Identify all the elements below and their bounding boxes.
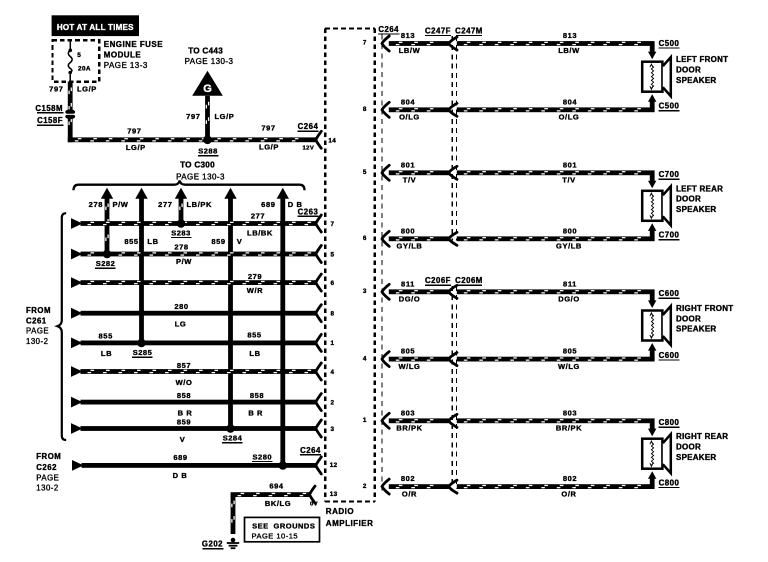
pin number 3 (right): [363, 288, 367, 295]
svg-text:LG/P: LG/P: [77, 84, 97, 93]
label TO C443: [188, 46, 223, 55]
svg-text:858: 858: [250, 391, 264, 400]
svg-text:TO C443: TO C443: [188, 46, 223, 55]
wire 801 T/V to speaker: [457, 170, 655, 175]
label 797 left of fuse wire: [49, 84, 63, 93]
connector C700 label top: [658, 170, 679, 180]
label W/LG (right seg): [558, 362, 580, 371]
terminal fishtail pin 4 (C264 right): [382, 352, 389, 367]
inline connector fishtail wire 803: [449, 414, 457, 427]
speaker name LEFT FRONT: [676, 55, 728, 85]
svg-text:P/W: P/W: [176, 257, 192, 266]
wire row 4 horizontal: [81, 311, 316, 316]
terminal fishtail pin 1 (C263): [316, 334, 322, 351]
label RADIO AMPLIFIER: [326, 507, 374, 528]
arrow from C261 row 5: [71, 338, 83, 349]
label 689 row: [173, 453, 187, 462]
wire 278 P/W vertical: [105, 198, 110, 255]
label LB row5 left: [101, 349, 112, 358]
arrow into speaker top C700: [648, 181, 656, 189]
arrow into speaker top C800: [648, 429, 656, 437]
wire 803 BR/PK left of connector: [389, 418, 449, 423]
svg-text:277: 277: [158, 200, 172, 209]
radio amplifier dashed box: [325, 29, 375, 502]
svg-text:C600: C600: [659, 351, 680, 360]
svg-text:PAGE 10-15: PAGE 10-15: [252, 531, 299, 540]
pin number 5 (right): [363, 169, 367, 176]
label 805 (left seg): [401, 347, 415, 356]
svg-text:AMPLIFIER: AMPLIFIER: [326, 519, 374, 528]
inline connector fishtail wire 813: [449, 37, 457, 50]
label BR/PK (right seg): [556, 424, 582, 433]
svg-text:803: 803: [563, 408, 577, 417]
svg-text:20A: 20A: [78, 65, 91, 72]
arrow into speaker bottom C500: [648, 94, 656, 102]
label 813 (left seg): [401, 31, 415, 40]
wire 802 O/R left of connector: [389, 484, 449, 489]
splice S285: [137, 339, 146, 348]
inline connector fishtail wire 800: [449, 232, 457, 245]
connector C247 dashed lines: [452, 36, 456, 241]
svg-text:802: 802: [563, 474, 577, 483]
svg-text:800: 800: [401, 226, 415, 235]
wire stub up from speaker C600: [650, 350, 655, 357]
splice S283: [177, 219, 186, 228]
svg-text:W/LG: W/LG: [558, 362, 580, 371]
svg-text:803: 803: [401, 408, 415, 417]
svg-text:S285: S285: [133, 348, 153, 357]
svg-text:PAGE 130-3: PAGE 130-3: [176, 172, 225, 181]
label 800 (right seg): [563, 226, 577, 235]
inline connector fishtail wire 811: [449, 285, 457, 298]
pin number 6 (C263): [331, 280, 335, 287]
label 277 row1: [251, 212, 265, 221]
svg-text:S283: S283: [171, 228, 191, 237]
label LB (A2 right): [147, 237, 158, 246]
arrow up wire 859 V (A4): [224, 188, 236, 199]
svg-text:C158F: C158F: [37, 116, 63, 125]
label 278 row2: [174, 243, 188, 252]
connector C247M label: [455, 26, 483, 36]
label 797 (G stub): [186, 112, 200, 121]
wire stub down to speaker C600: [650, 294, 655, 301]
label 797 left segment: [127, 126, 141, 135]
svg-text:S282: S282: [96, 259, 116, 268]
svg-text:RADIO: RADIO: [326, 507, 354, 516]
connector C158F label: [37, 116, 63, 126]
arrow into speaker bottom C600: [648, 343, 656, 351]
label 855 row5 right: [247, 331, 261, 340]
label D B (A5): [288, 200, 303, 209]
terminal fishtail pin 13: [310, 486, 316, 503]
svg-text:P/W: P/W: [113, 200, 129, 209]
label B R row7 right: [248, 408, 263, 417]
pin number 1 (right): [363, 417, 367, 424]
wire 801 T/V left of connector: [389, 170, 449, 175]
arrow into speaker bottom C800: [648, 471, 656, 479]
speaker C700 voice coil: [650, 193, 654, 218]
svg-text:G: G: [203, 83, 212, 95]
svg-text:7: 7: [363, 40, 367, 47]
pin number 8 (C263): [331, 311, 335, 318]
svg-text:LB/BK: LB/BK: [247, 229, 273, 238]
wire 811 DG/O left of connector: [389, 289, 449, 294]
label O/LG (left seg): [399, 113, 420, 122]
wire 805 W/LG left of connector: [389, 357, 449, 362]
terminal fishtail pin 8 (C264 right): [382, 102, 389, 117]
arrow from C261 row 7: [71, 397, 83, 408]
triangle G to C443: [192, 71, 223, 96]
connector C206M label: [455, 276, 483, 286]
svg-text:7: 7: [331, 221, 335, 228]
label LG/P left segment: [126, 143, 146, 152]
svg-text:O/LG: O/LG: [559, 113, 580, 122]
connector C264 label (pin 12): [300, 446, 321, 456]
svg-text:813: 813: [563, 31, 577, 40]
label GY/LB (left seg): [397, 242, 423, 251]
svg-text:C247F: C247F: [425, 26, 451, 35]
splice S282: [103, 250, 112, 259]
svg-text:C264: C264: [300, 446, 321, 455]
svg-text:14: 14: [328, 137, 336, 144]
pin number 2 (right): [363, 483, 367, 490]
svg-text:PAGE 13-3: PAGE 13-3: [104, 61, 148, 70]
svg-text:C800: C800: [659, 478, 680, 487]
label 0V: [310, 501, 318, 507]
label FROM C262 PAGE 130-2: [36, 452, 61, 492]
svg-text:6: 6: [363, 235, 367, 242]
svg-text:3: 3: [363, 288, 367, 295]
svg-text:BK/LG: BK/LG: [265, 499, 291, 508]
svg-text:797: 797: [261, 124, 275, 133]
speaker C800 horn: [663, 434, 671, 473]
connector C247F label: [425, 26, 451, 36]
svg-text:C600: C600: [659, 289, 680, 298]
label T/V (right seg): [562, 176, 575, 185]
label 813 (right seg): [563, 31, 577, 40]
svg-text:W/LG: W/LG: [399, 362, 421, 371]
svg-text:C158M: C158M: [35, 104, 63, 113]
svg-text:130-2: 130-2: [26, 337, 48, 346]
label W/O row6: [176, 378, 193, 387]
svg-text:797: 797: [49, 84, 63, 93]
label S282: [95, 259, 116, 269]
svg-text:280: 280: [174, 302, 188, 311]
svg-text:SPEAKER: SPEAKER: [676, 205, 716, 214]
terminal fishtail pin 8 (C263): [316, 305, 322, 322]
label V row8: [180, 435, 186, 444]
svg-text:ENGINE FUSE: ENGINE FUSE: [104, 40, 163, 49]
wire stub down to speaker C800: [650, 423, 655, 429]
svg-text:BR/PK: BR/PK: [556, 424, 582, 433]
svg-text:5: 5: [331, 251, 335, 258]
label 800 (left seg): [401, 226, 415, 235]
wire 805 W/LG to speaker: [457, 357, 655, 362]
label PAGE 130-3 (C443): [185, 57, 234, 66]
svg-text:6: 6: [331, 280, 335, 287]
terminal fishtail pin 5 (C264 right): [382, 165, 389, 180]
label O/R (right seg): [561, 489, 576, 498]
see grounds note box: [245, 517, 320, 541]
terminal fishtail pin 6 (C264 right): [382, 231, 389, 246]
arrow up wire 277 LB/PK (A3): [175, 188, 187, 199]
svg-text:DOOR: DOOR: [676, 195, 701, 204]
label FROM C261 PAGE 130-2: [26, 306, 51, 346]
speaker C700 horn: [663, 186, 671, 225]
speaker C500 horn: [663, 57, 671, 96]
svg-text:130-2: 130-2: [36, 484, 58, 493]
terminal fishtail pin 3 (C263): [316, 420, 322, 437]
fuse value label 20A: [78, 65, 91, 72]
label LG row4: [175, 320, 187, 329]
arrow from C261 row 8: [71, 423, 83, 434]
pin number 14: [328, 137, 336, 144]
svg-text:4: 4: [363, 355, 367, 362]
speaker name RIGHT FRONT: [676, 304, 733, 334]
svg-text:LG/P: LG/P: [126, 143, 146, 152]
svg-text:T/V: T/V: [403, 176, 416, 185]
label 811 (left seg): [401, 279, 415, 288]
pin number 13: [330, 491, 338, 498]
svg-text:LB: LB: [101, 349, 112, 358]
svg-text:797: 797: [127, 126, 141, 135]
wire 797 LG/P vertical to G triangle: [205, 96, 210, 140]
label 859 row8: [177, 417, 191, 426]
pin number 6 (right): [363, 235, 367, 242]
svg-text:TO C300: TO C300: [180, 160, 215, 169]
pin number 4 (right): [363, 355, 367, 362]
wire row 8 horizontal: [81, 426, 316, 431]
svg-text:LEFT FRONT: LEFT FRONT: [676, 55, 728, 64]
svg-text:LG/P: LG/P: [259, 143, 279, 152]
label P/W (A1): [113, 200, 129, 209]
svg-text:1: 1: [363, 417, 367, 424]
terminal fishtail pin 5 (C263): [316, 246, 322, 263]
label O/LG (right seg): [559, 113, 580, 122]
svg-text:W/O: W/O: [176, 378, 193, 387]
brace FROM C261: [57, 213, 66, 440]
arrow up wire 278 P/W (A1): [101, 188, 113, 199]
terminal fishtail pin 4 (C263): [316, 363, 322, 380]
wire row 2 horizontal: [81, 252, 316, 257]
svg-text:C206M: C206M: [455, 276, 483, 285]
label LB/PK (A3): [187, 200, 213, 209]
pin number 2 (C263): [331, 399, 335, 406]
wire 694 BK/LG vertical: [231, 495, 236, 534]
connector C264 label (top right): [378, 25, 399, 35]
svg-text:811: 811: [563, 279, 577, 288]
label 802 (left seg): [401, 474, 415, 483]
svg-text:2: 2: [331, 399, 335, 406]
svg-text:858: 858: [177, 391, 191, 400]
wire 277 LB/PK vertical: [179, 198, 184, 224]
arrow from C261 row 2: [71, 249, 83, 260]
svg-text:278: 278: [89, 200, 103, 209]
connector C264 dashed line (right): [381, 35, 383, 495]
wire 802 O/R to speaker: [457, 484, 655, 489]
connector C264 label (pin 14): [297, 122, 318, 132]
svg-text:2: 2: [363, 483, 367, 490]
label 804 (right seg): [563, 97, 578, 106]
inline connector fishtail wire 801: [449, 166, 457, 179]
label 801 (right seg): [563, 160, 577, 169]
svg-text:278: 278: [174, 243, 188, 252]
svg-text:804: 804: [401, 97, 416, 106]
svg-text:PAGE: PAGE: [26, 327, 49, 336]
svg-text:5: 5: [363, 169, 367, 176]
svg-text:0V: 0V: [310, 501, 318, 507]
label W/LG (left seg): [399, 362, 421, 371]
splice S284: [226, 424, 235, 433]
svg-text:DOOR: DOOR: [676, 314, 701, 323]
svg-text:1: 1: [331, 340, 335, 347]
svg-text:797: 797: [186, 112, 200, 121]
wire 689 DB horizontal: [82, 463, 316, 468]
arrow from C261 row 4: [71, 308, 83, 319]
power feed label box HOT AT ALL TIMES: [52, 15, 139, 36]
svg-text:4: 4: [331, 369, 335, 376]
wire 797 LG/P vertical from fuse: [68, 82, 73, 143]
svg-text:857: 857: [177, 361, 191, 370]
label LB/BK row1: [247, 229, 273, 238]
label 811 (right seg): [563, 279, 577, 288]
svg-text:HOT AT ALL TIMES: HOT AT ALL TIMES: [57, 23, 134, 32]
arrow up wire 855 LB (A2): [135, 188, 147, 199]
pin number 12: [330, 462, 338, 469]
svg-text:LB: LB: [147, 237, 158, 246]
connector C263 label: [297, 207, 318, 217]
label S280: [252, 452, 273, 462]
label 280 row4: [174, 302, 188, 311]
connector C600 label bottom: [658, 351, 679, 361]
label 804 (left seg): [401, 97, 416, 106]
svg-text:V: V: [237, 237, 243, 246]
label G202: [202, 540, 224, 550]
svg-text:C247M: C247M: [455, 26, 483, 35]
label PAGE 130-3 (C300): [176, 172, 225, 181]
svg-text:805: 805: [401, 347, 415, 356]
connector C206F label: [425, 276, 451, 286]
speaker C700 box: [642, 191, 662, 221]
pin number 1 (C263): [331, 340, 335, 347]
svg-text:C263: C263: [298, 207, 319, 216]
svg-text:C261: C261: [26, 316, 47, 325]
svg-text:5: 5: [77, 52, 81, 59]
svg-text:C700: C700: [659, 170, 680, 179]
label 277 (A3): [158, 200, 172, 209]
svg-text:S288: S288: [198, 147, 218, 156]
label 805 (right seg): [563, 347, 577, 356]
svg-text:689: 689: [173, 453, 187, 462]
wire 804 O/LG left of connector: [389, 107, 449, 112]
terminal fishtail pin 7 (C264 right): [382, 36, 389, 51]
inline connector C158 barrel symbol: [65, 109, 76, 119]
fuse F5 20A symbol: [68, 42, 72, 82]
label 803 (left seg): [401, 408, 415, 417]
wire 800 GY/LB to speaker: [457, 236, 655, 241]
svg-text:GROUNDS: GROUNDS: [274, 522, 316, 531]
svg-text:C206F: C206F: [425, 276, 451, 285]
svg-text:DOOR: DOOR: [676, 66, 701, 75]
svg-text:279: 279: [248, 272, 262, 281]
terminal fishtail pin 3 (C264 right): [382, 284, 389, 299]
wire stub down to speaker C500: [650, 46, 655, 53]
label T/V (left seg): [403, 176, 416, 185]
label 278 (A1): [89, 200, 103, 209]
svg-text:C264: C264: [298, 122, 319, 131]
connector C600 label top: [658, 289, 679, 299]
wire 689 DB vertical: [280, 198, 285, 466]
svg-text:LB/W: LB/W: [399, 46, 421, 55]
connector C206 dashed lines: [452, 286, 456, 489]
svg-text:12V: 12V: [303, 145, 315, 151]
svg-text:BR/PK: BR/PK: [396, 424, 422, 433]
wire 804 O/LG to speaker: [457, 107, 655, 112]
svg-text:LEFT REAR: LEFT REAR: [676, 184, 723, 193]
svg-text:SPEAKER: SPEAKER: [676, 453, 716, 462]
arrow from C261 row 1: [71, 218, 83, 229]
label BR/PK (left seg): [396, 424, 422, 433]
wire 855 LB vertical: [139, 198, 144, 343]
label 797 right segment: [261, 124, 275, 133]
terminal fishtail pin 14: [316, 131, 322, 148]
svg-text:C264: C264: [378, 25, 399, 34]
label 857 row6: [177, 361, 191, 370]
svg-text:W/R: W/R: [247, 286, 263, 295]
arrow from C261 row 3: [71, 277, 83, 288]
svg-text:SEE: SEE: [252, 522, 269, 531]
wire 859 V vertical: [228, 198, 233, 429]
arrow up wire 689 DB (A5): [277, 188, 289, 199]
pin number 7 (right): [363, 40, 367, 47]
svg-text:GY/LB: GY/LB: [556, 242, 582, 251]
wire row 3 horizontal: [81, 280, 316, 285]
svg-text:FROM: FROM: [26, 306, 51, 315]
speaker C800 voice coil: [650, 441, 654, 466]
svg-text:8: 8: [331, 311, 335, 318]
overbrace to C300: [74, 180, 305, 190]
speaker C500 voice coil: [650, 64, 654, 89]
label BK/LG: [265, 499, 291, 508]
inline connector fishtail wire 804: [449, 103, 457, 116]
speaker C800 box: [642, 439, 662, 469]
pin number 8 (right): [363, 106, 367, 113]
svg-text:S284: S284: [223, 434, 243, 443]
speaker C600 horn: [663, 306, 671, 345]
label LB/W (left seg): [399, 46, 421, 55]
wire 803 BR/PK to speaker: [457, 418, 655, 423]
svg-text:LB/PK: LB/PK: [187, 200, 213, 209]
terminal fishtail pin 2 (C263): [316, 394, 322, 411]
label 12V: [303, 145, 315, 151]
arrow into speaker top C600: [648, 300, 656, 308]
svg-text:804: 804: [563, 97, 578, 106]
label 858 row7 right: [250, 391, 264, 400]
inline connector fishtail wire 805: [449, 353, 457, 366]
svg-text:C262: C262: [36, 463, 57, 472]
svg-text:859: 859: [211, 237, 225, 246]
label 859 (A4 left): [211, 237, 225, 246]
svg-text:13: 13: [330, 491, 338, 498]
connector C500 label bottom: [658, 102, 679, 112]
pin number 3 (C263): [331, 426, 335, 433]
terminal fishtail pin 12: [316, 457, 322, 474]
wire 813 LB/W left of connector: [389, 41, 449, 46]
engine fuse module name text: [104, 40, 163, 70]
svg-text:DOOR: DOOR: [676, 443, 701, 452]
connector C800 label bottom: [658, 478, 679, 488]
pin number 7 (C263): [331, 221, 335, 228]
